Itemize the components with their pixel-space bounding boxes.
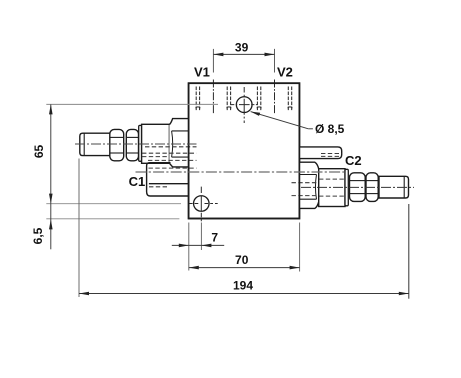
right upper boss hidden lines bbox=[321, 154, 342, 157]
svg-text:6,5: 6,5 bbox=[31, 227, 45, 244]
mounting hole top (Ø 8,5) bbox=[236, 97, 252, 113]
left hex chamfer arc bbox=[172, 131, 173, 157]
right hex chamfer arc bbox=[315, 175, 316, 200]
dimension 65 bbox=[46, 104, 218, 218]
left fitting hex head bbox=[169, 119, 188, 167]
dimension 194 bbox=[78, 159, 80, 298]
svg-text:C1: C1 bbox=[129, 174, 146, 189]
right C2 body sleeve bbox=[319, 169, 345, 207]
left fitting hidden thread lines bbox=[142, 147, 197, 161]
dimension 7 bbox=[189, 223, 202, 271]
left stem chamfer line bbox=[83, 133, 85, 155]
dimension 6,5 bbox=[50, 204, 52, 250]
mounting hole bottom bbox=[194, 196, 210, 212]
mounting hole bottom centerlines bbox=[189, 187, 218, 222]
right stem bbox=[379, 176, 409, 198]
svg-text:V1: V1 bbox=[194, 65, 210, 80]
right stem chamfer line bbox=[403, 176, 405, 198]
svg-text:65: 65 bbox=[32, 145, 46, 159]
left fitting body sleeve bbox=[142, 124, 170, 163]
C1 hidden lines bbox=[149, 168, 197, 187]
left fitting axis centerline bbox=[75, 143, 197, 145]
C1 fitting (lower left, behind hex) bbox=[147, 163, 171, 196]
left fitting stem bbox=[80, 133, 111, 155]
right lock nut 1 bbox=[350, 173, 366, 202]
right C2 hex head bbox=[299, 162, 318, 208]
svg-text:39: 39 bbox=[235, 41, 249, 55]
port V2 thread hidden lines bbox=[257, 87, 291, 111]
port V2 drill-bottom arcs bbox=[257, 107, 293, 108]
mounting hole top centerlines bbox=[231, 87, 258, 123]
left hex flats bbox=[172, 130, 189, 132]
svg-text:70: 70 bbox=[235, 253, 249, 267]
right upper boss bbox=[299, 147, 341, 159]
port V2 centerline bbox=[274, 80, 276, 114]
valve body block bbox=[189, 83, 300, 218]
left lock nut 2 bbox=[126, 129, 138, 160]
port V1 centerline bbox=[212, 80, 214, 114]
svg-text:V2: V2 bbox=[277, 65, 293, 80]
C1 / through axis centerline bbox=[136, 171, 345, 173]
port V1 drill-bottom arcs bbox=[196, 107, 232, 108]
svg-text:Ø 8,5: Ø 8,5 bbox=[315, 122, 345, 136]
leader Ø 8,5 bbox=[251, 112, 313, 129]
svg-text:7: 7 bbox=[211, 231, 218, 245]
left lock nut 1 bbox=[110, 129, 124, 160]
dimension 70 bbox=[299, 223, 301, 272]
svg-text:C2: C2 bbox=[345, 153, 362, 168]
dimension 39 bbox=[213, 49, 274, 73]
right flange washer bbox=[345, 169, 348, 206]
port V1 thread hidden lines bbox=[196, 87, 230, 111]
valve body outline (re-stroke on top) bbox=[189, 83, 300, 218]
right hex flats bbox=[299, 174, 316, 176]
svg-text:194: 194 bbox=[233, 279, 253, 293]
right C2 body hidden lines bbox=[292, 179, 346, 196]
left fitting flange washer bbox=[139, 125, 142, 161]
right lock nut 2 bbox=[366, 173, 378, 202]
right C2 axis centerline bbox=[301, 186, 414, 188]
